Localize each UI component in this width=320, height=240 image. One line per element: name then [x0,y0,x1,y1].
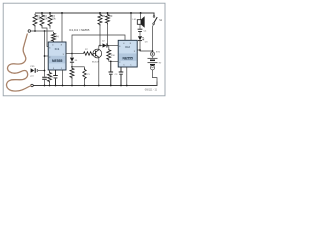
loudspeaker LS1 [140,13,142,20]
wire rail to IC2 pin8 [130,13,132,40]
node C3 gnd [120,85,122,87]
capacitor C4 [138,29,143,31]
node D1 bottom [71,66,73,68]
node battery top [152,50,154,52]
bent game wire (hand drawn) [6,34,30,91]
svg-text:IC1,IC2 = NE555: IC1,IC2 = NE555 [69,28,90,32]
wire C1 to ground [44,80,46,86]
probe plug PR1 [31,68,35,73]
capacitor C1 [42,77,47,79]
node R10 bottom [110,60,112,62]
transistor T1 [93,49,102,58]
capacitor C2 under IC1 [53,70,58,86]
wire T1 collector [98,46,100,50]
wire IC1 pin1 to ground [62,70,64,86]
wire speaker to C4 [139,24,141,29]
wire IC1 pin2 stub [45,55,49,57]
terminal upper wire loop socket [28,30,31,33]
capacitor C3 under IC2 [119,67,124,86]
wire battery to ground rail [153,70,158,82]
node C1 ground [44,85,46,87]
wire IC2 pin1 gnd [126,67,128,86]
node P1 gnd [84,85,86,87]
resistor R7 horizontal [72,53,84,55]
diode D2 [103,43,107,47]
node R6 gnd [71,85,73,87]
svg-text:BC547: BC547 [92,62,99,64]
switch S1 [153,16,155,18]
svg-text:IC1: IC1 [55,47,60,51]
svg-text:NE555: NE555 [123,56,133,60]
node out IC1 [71,53,73,55]
wire R10 top [108,46,109,49]
battery BT1 plus terminal [150,52,154,56]
wire R9 down [107,24,109,46]
node C2 gnd [55,85,57,87]
node emitter gnd [98,85,100,87]
node pin2 tap [44,55,46,57]
resistor R2 [40,14,44,27]
wire IC1 pin3 out [66,53,72,55]
resistor R6 [70,67,74,79]
capacitor C6 [109,61,114,85]
node R8 bottom [99,45,101,47]
wire out up to IC2 reset [72,35,125,54]
node top rail x140.6 [140,12,142,14]
node R1 row [34,30,36,32]
node top rail x131 [130,12,132,14]
node top rail x62 [61,12,63,14]
node pin3 stub [139,49,141,51]
wire node row y31 [31,30,54,32]
battery BT1 cells [152,56,154,58]
wire positive supply top rail [35,13,154,16]
border frame [3,3,165,96]
wire R6 gnd [71,78,73,86]
svg-text:IC2: IC2 [125,45,130,49]
diode D1 [71,54,73,58]
node top rail x100 [99,12,101,14]
wire D1 node to P1 [72,66,85,68]
wire D3 to battery node [140,41,153,51]
trimmer P1 [84,67,86,70]
wire ground bottom rail [33,82,157,86]
node top rail x107.5 [107,12,109,14]
battery BT1 minus terminal [150,66,154,70]
wire IC2 pin3 stub [137,49,140,51]
wire R2 bottom to IC1 pin6 [42,27,48,47]
wire C4 to D3 [139,32,141,36]
svg-text:NE555: NE555 [52,59,62,63]
wire R10 to IC2 pin2 [109,60,118,63]
svg-text:pen: pen [31,76,34,78]
op-amp IC2 NE555 box [118,40,137,67]
resistor R10 [107,49,111,61]
wire T1 emitter to gnd [98,57,100,85]
resistor R8 [98,13,102,25]
resistor R9 [106,13,110,24]
resistor R5 under IC1 [48,71,52,82]
node x44.5 row [44,30,46,32]
wire R1 bottom [34,27,36,32]
node C6 gnd [110,85,112,87]
wire probe to trigger [38,70,45,72]
node top rail x50 [49,12,51,14]
node R9 bottom [107,45,109,47]
wire rail to IC1 pin8 [61,13,63,42]
node R5 gnd [49,85,51,87]
terminal lower wire loop socket [31,84,34,87]
wire R8 down [99,26,101,46]
resistor R3 [48,14,52,27]
node probe junction [44,70,46,72]
wire trigger column x44.5 [44,31,46,77]
wire D2 to IC2 pin6 [107,45,118,47]
node pin1 gnd [62,85,64,87]
wire switch to battery [152,25,155,52]
wire R5 to ground [49,70,51,86]
wire R3 bottom [49,27,51,29]
op-amp IC1 NE555 box [48,42,66,70]
resistor R1 [33,14,37,27]
LED D3 [138,36,142,40]
node top rail x42 [41,12,43,14]
resistor R4 [52,32,56,42]
svg-text:060111 - 11: 060111 - 11 [145,89,158,92]
wire collector to D2 [99,45,103,47]
node IC2 pin1 gnd [126,85,128,87]
